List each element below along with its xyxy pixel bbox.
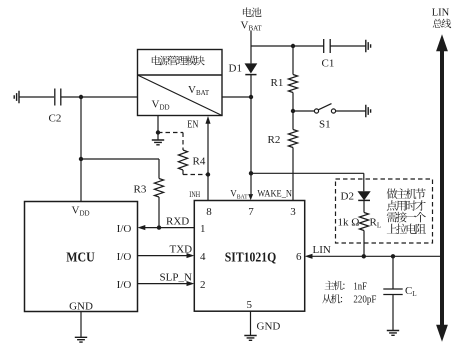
node: VDD / R3 branch [79,157,83,161]
resistor R2 [288,130,297,148]
label: power management module (Chinese) [152,56,205,66]
node: RL on LIN [362,254,366,258]
resistor R4 [178,150,187,170]
wire R2 to WAKE_N pin 3 [292,148,294,201]
wire EN with up arrow into module [207,123,209,175]
svg-text:R4: R4 [193,156,206,168]
svg-text:D2: D2 [341,191,354,203]
capacitor CL [392,256,394,289]
dashed box: optional pull-up [336,179,433,243]
wire battery down [250,31,252,46]
wire VBAT to pin 7 with down arrow [250,173,252,195]
wire junction down to MCU VDD [80,97,82,202]
wire D1 node down [250,97,252,173]
resistor R3 [154,179,163,198]
node: module ground junction [156,130,160,134]
note text (Chinese): pull-up needed for master node [387,188,426,199]
svg-text:5: 5 [247,299,253,311]
label master/slave capacitance [325,281,345,290]
MCU ground [80,312,82,338]
diode D1 [250,46,252,63]
wire module to D1 node [222,96,251,98]
svg-text:RXD: RXD [166,215,189,227]
wire SLP_N [138,283,189,285]
ground (left of C2) [14,91,19,103]
resistor RL (1k ohm) [359,213,368,231]
capacitor C2 [55,89,61,106]
svg-text:GND: GND [257,321,281,333]
wire LIN [311,255,442,257]
svg-text:4: 4 [200,251,206,263]
svg-text:2: 2 [200,279,206,291]
wire TXD [138,255,189,257]
node: module VBAT output / D1 cathode [249,95,253,99]
wire RXD [144,227,194,229]
ground (below module) [152,140,164,145]
svg-text:S1: S1 [319,119,331,131]
LIN bus thick line [440,49,444,327]
svg-text:SIT1021Q: SIT1021Q [225,250,277,265]
svg-text:220pF: 220pF [353,295,376,306]
node: VBAT / pull-up branch [249,171,253,175]
svg-text:I/O: I/O [117,279,132,291]
SIT ground pin 5 [250,311,252,335]
svg-text:EN: EN [187,120,199,131]
ground (right of C1) [366,40,371,52]
svg-text:1nF: 1nF [353,281,367,292]
svg-text:I/O: I/O [117,251,132,263]
svg-text:C2: C2 [49,113,62,125]
wire INH down to pin 8 [207,175,209,201]
node: CL on LIN [391,254,395,258]
svg-text:R3: R3 [134,184,147,196]
wire branch to D2 pull-up [251,172,364,174]
svg-text:LIN: LIN [432,8,450,19]
wire ground to C2 [19,96,54,98]
svg-text:INH: INH [189,189,200,199]
wire C2 to power module [61,96,138,98]
svg-text:D1: D1 [229,63,242,75]
dashed wire R4 to EN node [182,170,184,175]
node: EN / INH junction [206,172,210,176]
svg-text:3: 3 [290,206,296,218]
wire module bottom to ground [157,116,159,141]
svg-text:LIN: LIN [313,244,331,256]
node: S1 / R2 junction [291,109,295,113]
svg-text:TXD: TXD [170,244,193,256]
node: C2 / VDD junction [79,95,83,99]
node: top rail / R1 / C1 [291,44,295,48]
ground (right of S1) [366,105,371,117]
svg-text:MCU: MCU [66,250,95,265]
svg-text:SLP_N: SLP_N [160,271,192,283]
wire R3 to RXD line [158,197,160,228]
svg-text:7: 7 [248,206,254,218]
svg-text:1: 1 [200,223,206,235]
svg-text:I/O: I/O [117,223,132,235]
svg-text:1k Ω: 1k Ω [338,217,360,229]
power management module block [138,50,223,116]
svg-text:8: 8 [206,206,212,218]
wire branch to R3 [81,158,159,160]
svg-text:C1: C1 [322,58,335,70]
MCU block [25,202,138,312]
switch S1 [293,110,314,112]
svg-text:WAKE_N: WAKE_N [257,189,292,199]
diode D2 [358,191,371,200]
dashed wire to R4 [158,132,183,134]
svg-text:GND: GND [69,301,93,313]
transceiver U1 SIT1021Q [194,201,304,312]
resistor R1 [292,46,294,75]
top rail wire [251,45,324,47]
svg-text:R2: R2 [268,134,281,146]
svg-text:R1: R1 [271,77,284,89]
svg-text:6: 6 [296,251,302,263]
label: battery (Chinese) [243,7,262,17]
capacitor C1 [324,39,331,53]
